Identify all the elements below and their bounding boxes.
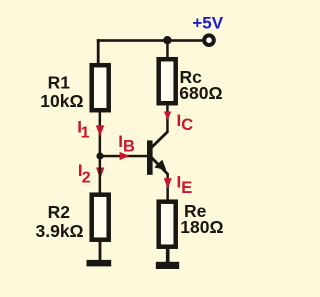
collector diagonal — [152, 131, 169, 147]
transistor Q1 — [147, 131, 168, 175]
svg-text:10kΩ: 10kΩ — [40, 91, 83, 111]
node top junction — [163, 36, 171, 44]
svg-text:3.9kΩ: 3.9kΩ — [36, 221, 84, 241]
wire R1 bottom to node B — [99, 112, 102, 156]
svg-text:B: B — [123, 137, 135, 155]
wire node B to R2 — [99, 156, 102, 195]
arrow IB — [120, 152, 130, 160]
ground right — [156, 262, 179, 269]
resistor Re — [159, 202, 176, 247]
arrow I1 — [96, 125, 105, 136]
svg-text:680Ω: 680Ω — [179, 83, 222, 103]
wire Rc top vertical — [166, 40, 169, 59]
svg-text:2: 2 — [82, 169, 91, 186]
emitter diagonal — [152, 158, 168, 175]
svg-text:+5V: +5V — [192, 13, 223, 32]
svg-text:1: 1 — [81, 124, 90, 141]
wire Rc bottom to collector — [166, 106, 169, 133]
resistor Rc — [159, 59, 176, 103]
svg-text:R2: R2 — [48, 202, 71, 222]
svg-text:C: C — [181, 116, 193, 134]
emitter arrowhead — [154, 160, 166, 171]
wire R1 top vertical — [97, 39, 100, 64]
ground left — [87, 260, 112, 267]
wire top horizontal rail — [97, 39, 204, 42]
terminal +5V — [204, 35, 214, 45]
wire emitter vertical — [166, 174, 169, 201]
wire Re to ground — [166, 249, 170, 263]
arrow IC — [164, 112, 171, 121]
svg-text:180Ω: 180Ω — [180, 217, 223, 237]
arrow I2 — [96, 168, 104, 180]
resistor R2 — [92, 195, 109, 240]
svg-text:R1: R1 — [48, 72, 71, 92]
base bar — [147, 140, 153, 174]
wire R2 to ground — [99, 242, 102, 260]
arrow IE — [164, 178, 172, 189]
svg-text:E: E — [181, 179, 192, 197]
wire base — [100, 155, 147, 158]
node B junction — [96, 152, 103, 159]
resistor R1 — [92, 65, 109, 110]
